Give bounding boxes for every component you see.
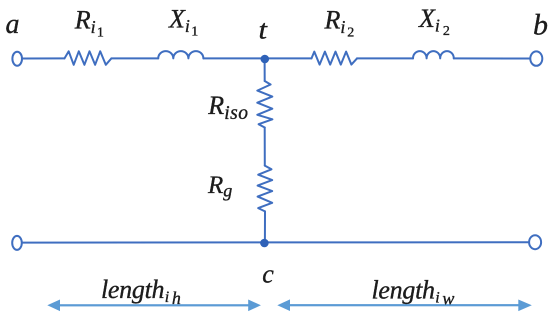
terminal (open circle, bottom-right) (529, 235, 541, 249)
resistor R_i2 (312, 52, 358, 65)
resistor R_g (vertical) (258, 166, 273, 212)
wire R_iso to R_g (264, 128, 266, 166)
bottom rail wire (22, 241, 528, 243)
wire R_g to node c (264, 211, 266, 242)
svg-text:t: t (259, 15, 269, 45)
svg-text:Rg: Rg (207, 172, 232, 201)
wire R_i1 to X_i1 (111, 57, 158, 59)
wire node t down to R_iso (264, 60, 266, 81)
dimension arrow length_ih (47, 300, 261, 312)
svg-text:Ri2: Ri2 (324, 6, 355, 41)
dimension arrow length_iw (277, 299, 532, 311)
wire X_i1 to node t (203, 57, 264, 59)
wire a to R_i1 (23, 57, 65, 59)
svg-text:lengthih: lengthih (101, 275, 181, 308)
svg-text:Ri1: Ri1 (74, 6, 104, 41)
svg-text:b: b (533, 9, 548, 42)
wire node t to R_i2 (264, 57, 311, 59)
terminal a (open circle, top-left) (12, 52, 22, 66)
wire X_i2 to terminal b (454, 57, 530, 59)
node t junction dot (261, 55, 270, 64)
svg-text:Xi1: Xi1 (168, 4, 198, 39)
terminal (open circle, bottom-left) (12, 236, 22, 250)
svg-text:Xi2: Xi2 (418, 4, 450, 39)
terminal b (open circle, top-right) (530, 51, 542, 65)
inductor X_i1 (158, 51, 203, 58)
inductor X_i2 (413, 51, 454, 58)
resistor R_i1 (65, 51, 112, 65)
svg-text:a: a (6, 9, 20, 40)
svg-text:lengthiw: lengthiw (372, 276, 455, 309)
node c junction dot (260, 239, 269, 248)
resistor R_iso (vertical) (257, 81, 272, 128)
svg-text:c: c (262, 259, 274, 288)
wire R_i2 to X_i2 (357, 57, 413, 59)
svg-text:Riso: Riso (207, 91, 248, 124)
